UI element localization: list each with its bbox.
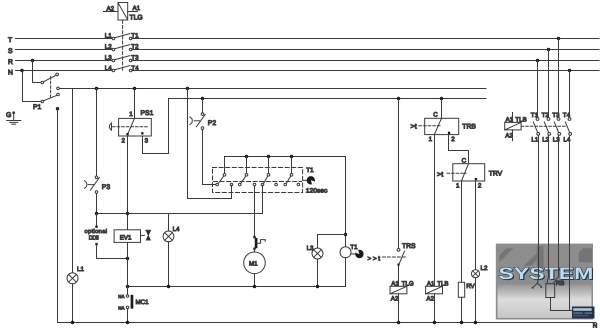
svg-text:3: 3 — [145, 138, 149, 145]
svg-text:TRB: TRB — [462, 124, 476, 131]
node junction dot control bus at P3 column — [95, 87, 98, 90]
svg-text:T3: T3 — [552, 112, 560, 119]
contactor TLG contact L3-T3 on line R — [112, 56, 132, 62]
svg-text:L3: L3 — [105, 54, 112, 61]
svg-text:N: N — [8, 69, 13, 76]
wire T1 motor to rail A — [345, 258, 347, 287]
svg-text:optional: optional — [85, 228, 108, 235]
svg-text:L1: L1 — [105, 32, 112, 39]
node junction dot on S line at TLB bank — [547, 48, 550, 51]
wire PS1 terminal 2 down to EV1 — [127, 136, 129, 230]
wire TLB contact L1 down to fan motor — [538, 135, 540, 278]
wire timer feed drop right side — [345, 157, 347, 247]
svg-text:SYSTEM: SYSTEM — [498, 265, 593, 283]
fan motor symbol — [532, 278, 543, 289]
relay coil TLB (bottom) — [426, 286, 443, 294]
wire stub for optional DD3 (lower) to EV1 column — [95, 243, 127, 259]
timer contact 4 — [284, 157, 300, 186]
wire timer contact3 moving to lower bus — [97, 185, 263, 213]
timer contact 1 — [216, 174, 233, 186]
svg-text:1: 1 — [429, 136, 433, 143]
node junction dot on N line — [20, 69, 23, 72]
node junction dot second bus at TRS — [397, 97, 400, 100]
wire PS1 terminal 3 loop up to second bus — [143, 99, 169, 154]
wire drop control bus to P3 — [96, 89, 98, 177]
wire P2 bottom to timer contact 1 moving — [203, 130, 216, 185]
solenoid valve EV1 box — [114, 230, 140, 243]
motor M1 — [244, 252, 266, 274]
node junction dot on T line at TLB bank — [557, 37, 560, 40]
wire drop control bus to PS1 terminal 1 — [134, 89, 136, 119]
node junction dot feed at contact 4 — [290, 155, 293, 158]
thermostat TRB — [419, 99, 459, 135]
svg-text:2: 2 — [451, 136, 455, 143]
microswitch MC1 — [126, 287, 133, 323]
switch P3 (pushbutton NO) — [84, 176, 99, 193]
svg-text:A2: A2 — [107, 5, 115, 12]
wire stub for optional DD3 (upper) — [95, 214, 98, 228]
svg-text:TLG: TLG — [402, 280, 414, 287]
node dot below P1 — [56, 107, 59, 110]
svg-text:L1: L1 — [77, 266, 84, 273]
svg-text:T1: T1 — [306, 167, 314, 174]
svg-text:L4: L4 — [105, 65, 112, 72]
svg-text:1: 1 — [456, 183, 460, 190]
wire motor M1 to rail A — [254, 274, 256, 287]
node junction dot second bus at TRB — [440, 97, 443, 100]
svg-text:RV: RV — [466, 283, 475, 290]
svg-text:120sec: 120sec — [306, 187, 328, 194]
wire R to TLB contact T1 — [537, 61, 539, 118]
wire TLB contact L4 down — [569, 135, 571, 310]
wire rail B (bottom N rail) — [58, 322, 596, 324]
wire dashed mechanical link TLG coil to contacts — [122, 20, 124, 70]
wire RV to rail B — [461, 297, 463, 322]
wire L3 branch — [318, 235, 346, 249]
svg-text:>>t: >>t — [368, 255, 381, 262]
switch P1 (double pole) — [41, 73, 59, 103]
node junction dot rail B at L2 — [474, 321, 477, 324]
lamp L4 — [163, 231, 174, 242]
svg-text:EV1: EV1 — [120, 234, 132, 241]
node junction dot P3 column on lower bus — [95, 212, 98, 215]
node junction dot L3 branch — [344, 233, 347, 236]
timer motor symbol T1 at box — [303, 176, 315, 184]
thermal switch TRS — [397, 249, 404, 266]
svg-text:T1: T1 — [131, 32, 139, 39]
svg-text:>t: >t — [411, 124, 417, 131]
wire second bus (PS1-3 line) — [169, 98, 487, 100]
wire dashed mechanical link TLB to contacts — [521, 125, 565, 127]
svg-text:A1: A1 — [133, 5, 141, 12]
node junction dot rail B at MC1 — [126, 321, 129, 324]
svg-text:L3: L3 — [307, 245, 314, 252]
svg-text:DD3: DD3 — [89, 236, 99, 242]
svg-text:1: 1 — [129, 111, 133, 118]
svg-text:T2: T2 — [131, 43, 139, 50]
wire TRB-1 down to TLB coil — [434, 135, 436, 287]
ground — [7, 111, 21, 124]
svg-text:M1: M1 — [249, 261, 258, 268]
svg-text:L2: L2 — [105, 43, 112, 50]
svg-text:T4: T4 — [563, 112, 571, 119]
svg-text:L4: L4 — [173, 226, 180, 233]
wire S to TLB contact T2 — [548, 50, 550, 118]
svg-text:RB: RB — [556, 280, 565, 287]
lamp L1 — [67, 273, 78, 284]
wire drop to lamp L1 — [72, 89, 74, 273]
svg-text:TRS: TRS — [402, 243, 416, 250]
node junction dot on N line at TLB bank — [568, 69, 571, 72]
wire RB bottom to logo box — [551, 298, 573, 311]
wire TRV-1 down to RV — [461, 181, 463, 282]
node junction dot rail B at TLG — [397, 321, 400, 324]
contactor TLB contact 1 — [533, 118, 539, 136]
heater RV — [458, 282, 464, 297]
svg-text:TRV: TRV — [489, 170, 503, 177]
timer contact 2 — [238, 157, 255, 186]
node junction dot rail A at L4 — [167, 285, 170, 288]
wire dashed link T1 to TRS — [383, 256, 406, 258]
wire protector to motor — [254, 249, 256, 252]
svg-text:L2: L2 — [481, 265, 488, 272]
wire P2 top — [202, 99, 204, 113]
node junction dot control bus at timer column — [186, 87, 189, 90]
svg-text:A1: A1 — [506, 117, 514, 124]
svg-text:MC1: MC1 — [136, 299, 150, 306]
wire TLB coil to rail B — [434, 294, 436, 323]
relay coil TLB (top right, with contact bank) — [505, 113, 521, 141]
pressure switch PS1 — [109, 118, 151, 136]
wire TRS to TLG coil — [398, 266, 400, 287]
wire P3 to lower junction — [96, 194, 98, 214]
lamp L3 — [312, 248, 323, 259]
wire lamp L4 to rail A — [168, 242, 170, 287]
svg-text:P2: P2 — [208, 120, 217, 127]
node junction dot rail B at L1 — [71, 321, 74, 324]
node junction dot rail B at TLB — [433, 321, 436, 324]
svg-text:2: 2 — [122, 138, 126, 145]
wire timer B1 to bus drop — [188, 89, 232, 199]
wire timer B2 down to motor protector — [254, 186, 256, 237]
wire bus line R — [16, 60, 600, 62]
wire from R line down to P1 upper pole — [33, 61, 41, 83]
thermal protector of motor — [253, 236, 265, 250]
wire L2 to rail B — [475, 278, 477, 323]
node junction dot rail A at L3 — [316, 285, 319, 288]
relay coil TLG (bottom) — [390, 286, 407, 294]
svg-text:L2: L2 — [542, 136, 549, 143]
timer symbol next to T1 — [351, 250, 364, 258]
svg-text:A2: A2 — [426, 296, 434, 303]
svg-text:P1: P1 — [33, 104, 42, 111]
switch P2 (pushbutton NO) — [190, 113, 205, 130]
svg-text:A1: A1 — [427, 280, 435, 287]
thermostat TRV — [447, 164, 485, 181]
valve symbol — [141, 230, 151, 240]
node junction dot rail A at MC1 — [126, 285, 129, 288]
svg-text:N: N — [593, 323, 597, 329]
wire rail A — [128, 286, 346, 288]
node junction dot on R line — [31, 59, 34, 62]
wire bus line T — [16, 38, 600, 40]
svg-text:A2: A2 — [391, 296, 399, 303]
wire left vertical from P1 dot to bottom rail — [57, 109, 59, 323]
wire TLB contact L2 down to RB — [547, 135, 549, 283]
svg-text:L1: L1 — [531, 136, 538, 143]
wire bus line S — [16, 49, 600, 51]
svg-text:S: S — [8, 48, 13, 55]
contactor TLB contact 2 — [544, 118, 550, 136]
watermark logo box — [496, 244, 595, 320]
svg-text:T2: T2 — [542, 112, 550, 119]
wire from N line down to P1 lower pole — [23, 71, 41, 102]
svg-text:T3: T3 — [131, 54, 139, 61]
node junction dot DD3 joins EV1 wire — [126, 257, 129, 260]
node junction dot on R line at TLB bank — [536, 59, 539, 62]
node junction dot PS1-2 column on lower bus — [126, 212, 129, 215]
svg-text:T1: T1 — [531, 112, 539, 119]
node junction dot feed at contact 2 — [245, 155, 248, 158]
relay coil TLG (contactor coil, top) — [104, 3, 138, 21]
wire lamp L3 to rail A — [317, 259, 319, 287]
wire EV1 down to rail A — [127, 242, 129, 286]
svg-text:P3: P3 — [102, 184, 111, 191]
contactor TLB contact 4 — [565, 118, 571, 136]
node junction dot control bus at PS1 column — [133, 87, 136, 90]
wire TRS column — [398, 99, 400, 249]
wire T to TLB contact T3 — [558, 39, 560, 118]
timer motor T1 (round) — [340, 247, 351, 258]
svg-text:NA: NA — [118, 294, 124, 299]
contactor TLB contact 3 — [554, 118, 560, 136]
contactor TLG contact L4-T4 on line N — [112, 66, 132, 72]
svg-text:G: G — [6, 112, 11, 119]
svg-text:A2: A2 — [505, 132, 513, 139]
wire TRB-2 to TRV C — [449, 135, 469, 164]
wire lamp L4 tap — [168, 214, 170, 232]
wire TRV-2 down to L2 — [475, 181, 477, 270]
timer T1 dashed box — [213, 168, 303, 193]
node junction dot rail B at RV — [460, 321, 463, 324]
svg-text:TLB: TLB — [437, 280, 448, 287]
wire bus line N — [16, 70, 600, 72]
heater RB — [546, 284, 555, 298]
wire control bus (from P1 fixed contact to right) — [60, 88, 487, 90]
contactor TLG contact L2-T2 on line S — [112, 45, 132, 51]
lamp L2 — [471, 270, 479, 278]
svg-text:T4: T4 — [131, 65, 139, 72]
svg-text:2: 2 — [478, 183, 482, 190]
svg-text:T1: T1 — [350, 244, 358, 251]
wire TLG coil to rail B — [398, 294, 400, 323]
wire TLB contact L3 down to RB — [554, 135, 559, 283]
wire lamp L1 to bottom rail — [72, 284, 74, 323]
svg-text:PS1: PS1 — [141, 110, 154, 117]
node junction dot second bus at P2 — [201, 97, 204, 100]
svg-text:L4: L4 — [563, 136, 570, 143]
svg-text:TLB: TLB — [515, 117, 526, 124]
svg-text:C: C — [462, 158, 467, 165]
wire dashed mechanical link inside timer box — [214, 181, 302, 183]
svg-text:R: R — [8, 59, 13, 66]
svg-text:NA: NA — [118, 305, 124, 310]
timer contact 3 — [261, 157, 277, 186]
node junction dot feed at contact 3 — [267, 155, 270, 158]
svg-text:T: T — [8, 37, 12, 44]
svg-text:C: C — [433, 112, 438, 119]
wire timer feed line — [225, 157, 346, 174]
wire N to TLB contact T4 — [569, 71, 571, 118]
svg-text:TLG: TLG — [130, 15, 143, 22]
svg-text:L3: L3 — [553, 136, 560, 143]
svg-text:A1: A1 — [391, 280, 399, 287]
contactor TLG contact L1-T1 on line T — [112, 34, 132, 40]
node junction dot rail A at M1 — [253, 285, 256, 288]
svg-text:>t: >t — [437, 171, 443, 178]
